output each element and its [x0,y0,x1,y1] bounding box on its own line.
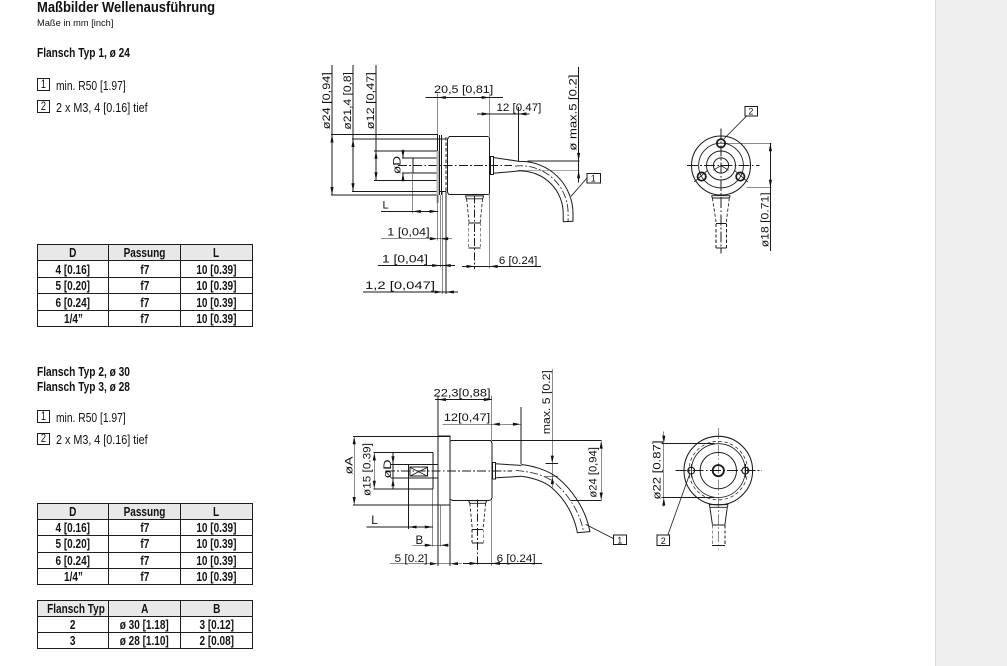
front view 2 outer circle øA [684,436,753,505]
cable collar [490,156,493,174]
cable outer curve [521,161,573,221]
dim øD arrows [392,456,394,464]
bottom gland 2 centerline [477,500,479,567]
callout 1 box (d2) [614,535,627,544]
svg-text:ø22 [0.87]: ø22 [0.87] [651,441,663,500]
svg-text:20,5 [0,81]: 20,5 [0,81] [434,84,493,96]
front view 1 boss circle ø12 [707,151,736,180]
svg-text:1 [0,04]: 1 [0,04] [387,227,429,239]
shaft [402,157,438,159]
dim ø18 extension lines [726,142,772,144]
dim ø12 dimension line [375,65,377,151]
front view 2 cable lip [709,505,728,508]
boss front face [392,453,394,489]
body typ2/3 [450,440,492,500]
callout 2 box [745,107,758,117]
front view 2 crosshair [676,470,763,472]
table 1 D/Passung/L [37,244,253,328]
svg-text:1 [0,04]: 1 [0,04] [382,253,428,265]
callout 1 box [587,173,600,183]
dim 20,5 extension lines up [437,94,439,135]
dim L2 extension lines [408,478,410,529]
callout 2 leader (fv2) [668,474,690,535]
dim øD arrows [402,150,404,159]
legend 2 text 2 [56,434,169,447]
dim 22,3 dimension line [435,399,438,401]
legend 1 text 2 [56,102,169,115]
legend 1 text 1 [56,80,146,93]
cable inner curve [521,171,564,222]
dim ø12 extension lines [374,150,438,152]
boss rear face [432,453,434,489]
slip ring box [410,467,428,476]
shaft slot marks [713,166,721,171]
dim ø22 dimension line [663,431,665,506]
dim ø24 extension lines [492,440,602,442]
legend 2 box 2 [37,433,50,446]
svg-text:ø21,4 [0,8]: ø21,4 [0,8] [342,72,354,130]
dim 12 extension line [517,107,519,161]
callout 1 leader [571,178,587,196]
front view 1 cable lip [711,196,730,198]
dim B dimension line [413,544,449,546]
screw hole lower-right [736,172,744,180]
right gray margin strip [935,0,1007,666]
svg-text:6 [0.24]: 6 [0.24] [497,553,536,565]
front view 1 cable end [716,247,727,249]
bottom gland straight hidden [468,223,470,248]
dim 6 extension line [489,195,491,269]
svg-text:2: 2 [661,536,666,546]
hole tick left [690,464,692,478]
front view 2 cable straight hidden [711,525,713,545]
svg-text:B: B [416,535,424,547]
dim max.5 dimension line [551,369,553,488]
screw hole right [742,467,749,474]
cable collar 2 [493,463,496,480]
bottom gland taper hidden [467,199,469,223]
cable end cap [563,220,573,223]
legend 2 text 1 [56,412,146,425]
svg-text:12[0,47]: 12[0,47] [444,412,490,424]
front view 2 shaft circle [713,465,724,476]
svg-text:ø15 [0.39]: ø15 [0.39] [362,443,374,496]
dim 1 [0,04] second [378,265,455,267]
dim øA dimension line [353,436,355,505]
screw hole lower-left [698,172,706,180]
svg-text:øD: øD [392,156,404,174]
cable 2 centerline [516,470,584,532]
svg-text:1,2 [0,047]: 1,2 [0,047] [365,280,435,292]
dim max.5 extension ticks [546,463,559,465]
svg-text:ø24 [0,94]: ø24 [0,94] [588,447,600,498]
dim ø21.4 extension lines [352,138,446,140]
side view 2: main centerline [386,470,512,472]
flange hidden edge [445,137,447,194]
cable 2 outer curve [522,465,591,533]
svg-text:1: 1 [591,174,596,184]
dim ø18 dimension line [769,143,771,187]
hole centerline ticks [694,170,708,182]
svg-text:max. 5 [0.2]: max. 5 [0.2] [541,370,553,434]
dim øA extension lines [353,435,438,437]
dim ø max.5 dimension line [578,67,580,183]
cable 2 inner curve [521,476,577,532]
dim ø24 dimension line [600,441,602,501]
screw hole top [717,139,725,147]
bottom gland 2 straight hidden [471,530,473,543]
svg-text:2: 2 [748,107,753,117]
svg-text:ø12 [0,47]: ø12 [0,47] [365,72,377,129]
svg-text:5 [0.2]: 5 [0.2] [395,553,428,565]
svg-text:ø max.5 [0.2]: ø max.5 [0.2] [567,75,579,151]
bottom gland 2 lip [468,501,487,504]
dim 1,2 [0,047] [363,291,458,293]
svg-text:22,3[0,88]: 22,3[0,88] [434,388,491,400]
side view 1: main centerline [398,165,512,167]
dim L2 dimension line [367,526,409,528]
dim L extension line [412,174,414,213]
legend 1 box 2 [37,100,50,113]
bottom gland lip [465,196,484,199]
bottom gland 2 end [472,542,484,544]
bottom gland 2 mid line [472,528,483,530]
hole tick right [744,464,746,478]
svg-text:øA: øA [344,456,356,475]
bottom gland end [469,247,481,249]
dim ø24 extension lines [331,134,438,136]
flange extension lines down [437,195,439,241]
legend 1 box 1 [37,78,50,91]
title [37,2,233,15]
dim ø21.4 dimension line [352,65,354,139]
callout 2 box (fv2) [657,535,670,546]
svg-text:L: L [371,513,378,527]
dim 6 dimension line [462,265,541,267]
dim 12 extension line [520,407,522,464]
front view 1 cable straight hidden [715,224,717,248]
front view 1 outer circle ø24 [692,136,751,195]
dim 5 dimension line [390,563,462,565]
bottom gland 2 taper hidden [470,503,473,529]
front view 1 cable taper hidden [712,198,716,223]
dim ø15 extension/boss top-bottom lines [374,452,433,454]
front view 2 cable mid line [712,524,725,526]
front view 2 hidden body circle ø24 [689,441,748,500]
subtitle [37,19,115,29]
table 3 Flansch Typ/A/B [37,600,253,649]
cable 2 end cap [577,532,590,533]
svg-text:øD: øD [382,459,394,478]
callout 1 leader (d2) [586,524,614,538]
svg-text:ø18 [0.71]: ø18 [0.71] [759,192,771,247]
section 2 heading [37,364,159,395]
front view 1 shaft circle [713,158,728,173]
flange plate typ2/3 [438,436,450,505]
svg-text:12 [0.47]: 12 [0.47] [497,102,542,114]
shaft lines [391,463,438,465]
svg-text:L: L [383,199,389,211]
shaft tip [408,464,410,478]
dim ø22 extension lines [662,443,715,445]
dim B extension line [439,505,441,547]
dim 6 (d2) dimension line [463,562,542,564]
bottom gland centerline [474,196,476,270]
front view 2 cable taper [710,507,713,524]
dim 22,3 extension lines [437,396,439,437]
front view 1 crosshair [687,165,760,167]
dim 12 dimension line [443,423,492,425]
dim 20,5 dimension line [426,97,438,99]
svg-text:1: 1 [617,535,622,545]
svg-text:ø24 [0,94]: ø24 [0,94] [321,72,333,129]
dim 6 (d2) extension line [491,500,493,566]
screw hole left [688,467,695,474]
dim ø15 dimension line [373,453,375,489]
flange plate lines [437,135,439,196]
svg-text:6 [0.24]: 6 [0.24] [499,255,538,267]
body [448,137,490,195]
dim 5 extension lines [437,505,439,566]
dim ø max.5 extension lines [527,160,579,162]
front view 1 cable mid line [716,223,726,225]
section 1 heading [37,46,159,59]
cable cone 2 [496,464,522,466]
front view 2 boss circle ø15 [700,452,736,488]
cable cone [493,158,521,162]
dim ø24 dimension line [331,65,333,135]
front view 2 bolt circle ø22 [691,444,745,498]
dim 1 [0,04] first [381,238,452,240]
bottom gland mid line [469,222,480,224]
front view 2 cable end [712,544,725,546]
dim L dimension line [381,210,413,212]
dim 12 dimension line [477,113,530,115]
front view 1 bolt circle ø18 [699,143,744,188]
cable centerline [515,166,568,222]
table 2 D/Passung/L [37,503,253,585]
legend 2 box 1 [37,410,50,423]
callout 2 leader [724,116,746,139]
